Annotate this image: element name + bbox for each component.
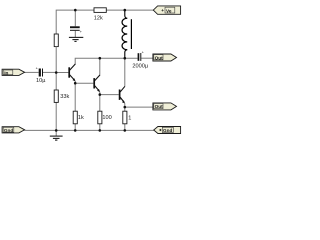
resistor R6 (bias feed, unlabeled) xyxy=(54,34,58,47)
capacitor C3 2000u output electrolytic xyxy=(132,50,148,70)
inductor L1 xyxy=(122,10,131,58)
node R4 / ground rail xyxy=(99,129,102,132)
capacitor C2 decoupling electrolytic xyxy=(70,26,83,34)
wire R5 bottom to ground rail xyxy=(124,124,126,131)
node cap C2 / top rail xyxy=(74,9,77,12)
wire top rail right to +Ve xyxy=(106,9,153,11)
node Q2 emitter / R4 / Q3 base xyxy=(99,93,102,96)
node Out terminal (emitter follower) xyxy=(153,103,177,110)
ground (top, below C2) xyxy=(69,37,83,41)
wire collector rail (Q1 collector up, across to C3) xyxy=(75,58,137,64)
svg-text:33k: 33k xyxy=(60,94,69,100)
wire Q2 emitter down to R4 100 xyxy=(99,92,101,111)
svg-text:1k: 1k xyxy=(78,115,84,121)
svg-text:+: + xyxy=(161,8,164,13)
svg-text:Gnd: Gnd xyxy=(163,128,173,133)
wire C3 right lead to Out xyxy=(141,57,153,59)
wire R6 bottom to base node xyxy=(55,47,57,73)
wire base node down to R2 33k xyxy=(55,73,57,91)
wire bottom ground rail xyxy=(24,129,154,131)
wire R3 bottom to ground rail xyxy=(74,124,76,131)
wire Q1 emitter down through node to R3 1k xyxy=(74,81,76,111)
svg-text:Ve: Ve xyxy=(166,8,172,13)
svg-text:Gnd: Gnd xyxy=(4,128,14,133)
resistor R2 33k xyxy=(54,90,69,102)
svg-text:Out: Out xyxy=(155,104,164,109)
node Q2 collector / rail xyxy=(99,57,102,60)
wire R4 bottom to ground rail xyxy=(99,124,101,131)
transistor Q1 xyxy=(69,64,75,82)
node +Ve supply terminal xyxy=(153,6,180,14)
node Q3 emitter / R5 / Out xyxy=(124,106,127,109)
wire Q3 emitter down to R5 1 xyxy=(124,103,126,111)
svg-text:1: 1 xyxy=(128,115,131,121)
wire top rail left + left column down to R6 xyxy=(56,10,94,34)
node base of Q1 / R2 / C1 xyxy=(55,71,58,74)
svg-text:10µ: 10µ xyxy=(36,78,46,84)
wire Q3 emitter node to Out tag xyxy=(125,106,153,108)
svg-text:100: 100 xyxy=(102,115,111,121)
svg-text:2000µ: 2000µ xyxy=(132,63,148,69)
wire C1 to base node xyxy=(43,71,56,73)
ground (bottom, on ground rail) xyxy=(50,136,63,140)
node In terminal xyxy=(2,69,25,75)
transistor Q3 xyxy=(120,86,126,103)
transistor Q2 xyxy=(94,75,100,92)
resistor R4 100 xyxy=(98,111,112,124)
wire ground stem bottom xyxy=(55,130,57,136)
wire Q1 emitter node to Q2 base xyxy=(75,82,93,84)
node Gnd supply terminal (right) xyxy=(154,127,181,134)
node Out terminal (speaker via C3) xyxy=(153,54,177,61)
wire capacitor C2 top lead xyxy=(74,10,76,26)
svg-text:12k: 12k xyxy=(94,15,103,21)
node R3 / ground rail xyxy=(74,129,77,132)
wire Q2 collector vertical xyxy=(99,58,101,75)
resistor R1 12k xyxy=(94,8,107,21)
wire capacitor C2 bottom lead to ground xyxy=(74,31,76,38)
node R2 / ground rail xyxy=(55,129,58,132)
wire R2 bottom to ground rail xyxy=(55,102,57,130)
node Gnd terminal (left) xyxy=(2,127,25,133)
node Q3 collector / inductor / rail xyxy=(124,57,127,60)
capacitor C1 10u input electrolytic xyxy=(36,66,47,84)
resistor R5 1 xyxy=(123,111,132,124)
wire In tag to C1 xyxy=(24,71,38,73)
wire base node to Q1 base xyxy=(56,72,68,74)
node R5 / ground rail xyxy=(124,129,127,132)
svg-text:Out: Out xyxy=(155,55,164,60)
resistor R3 1k xyxy=(73,111,84,124)
wire Q3 collector vertical xyxy=(124,58,126,86)
node Q1 emitter / R3 / Q2 base xyxy=(74,82,77,85)
node inductor / top rail xyxy=(124,9,127,12)
svg-text:In: In xyxy=(4,70,8,75)
wire Q2 emitter node to Q3 base xyxy=(100,94,119,96)
